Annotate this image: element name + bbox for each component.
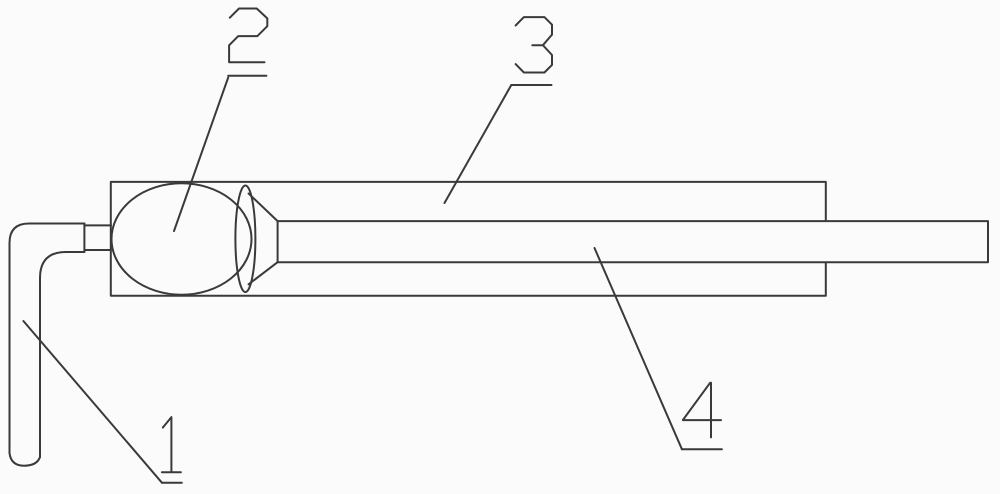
rod 4 (covers box right edge) [278, 221, 988, 262]
label 1 digit [162, 417, 181, 472]
label 1 underline [162, 482, 182, 484]
leader line 3 [445, 85, 512, 203]
label 3 underline [511, 84, 551, 86]
leader line 1 [23, 321, 162, 483]
stub bottom [84, 249, 111, 251]
leader line 4 [595, 248, 682, 449]
housing box 3 [111, 182, 826, 296]
pipe 1 bottom cap [10, 453, 41, 466]
pipe/stub joint tick [83, 224, 85, 253]
cone top line [249, 194, 278, 222]
lens (narrow ellipse) [235, 186, 255, 293]
label 3 digit [516, 17, 552, 72]
leader line 2 [174, 78, 228, 232]
pipe 1 inner wall [40, 252, 84, 457]
pipe 1 outer wall [10, 224, 85, 454]
label 4 digit [683, 383, 721, 438]
label 2 underline [228, 75, 266, 77]
label 2 digit [229, 9, 267, 63]
ball 2 (large ellipse) [112, 183, 252, 294]
stub top [84, 224, 111, 226]
label 4 underline [682, 448, 722, 450]
cone bottom line [249, 262, 278, 284]
